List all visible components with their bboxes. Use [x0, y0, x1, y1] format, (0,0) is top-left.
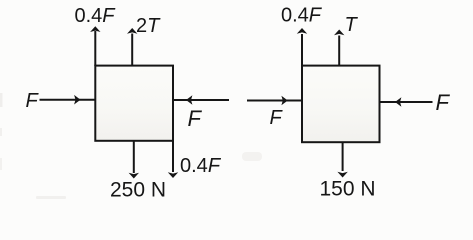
- force arrow 250 N down: [129, 141, 139, 179]
- force arrow F right-side pointing left (right diagram): [380, 97, 433, 107]
- svg-text:F: F: [26, 90, 40, 112]
- svg-text:F: F: [188, 106, 203, 131]
- svg-text:T: T: [345, 14, 359, 36]
- svg-text:F: F: [436, 90, 451, 115]
- force arrow T up: [334, 30, 344, 67]
- svg-text:150 N: 150 N: [320, 178, 376, 201]
- svg-text:0.4F: 0.4F: [74, 5, 116, 27]
- scan smudge mid lower: [242, 152, 262, 161]
- scan smudge bottom left: [36, 196, 66, 199]
- svg-text:F: F: [270, 107, 284, 129]
- scan smudge left lower: [0, 128, 2, 136]
- block B (right box): [302, 66, 380, 143]
- svg-text:0.4F: 0.4F: [281, 5, 323, 27]
- scan smudge left mid-low: [0, 158, 2, 170]
- force arrow F left-side (right diagram): [247, 96, 302, 106]
- scan smudge left edge: [0, 93, 3, 107]
- svg-text:2T: 2T: [136, 15, 161, 37]
- force arrow F right-side pointing left (left diagram): [174, 95, 230, 105]
- force arrow 2T up: [127, 28, 137, 66]
- svg-text:250 N: 250 N: [110, 179, 166, 202]
- force arrow F left-side (left diagram): [40, 95, 96, 105]
- block A (left box): [95, 66, 173, 141]
- force arrow 0.4F down (right edge extension): [168, 141, 178, 178]
- force arrow 0.4F up (right diagram): [297, 28, 307, 66]
- force arrow 0.4F up (left diagram): [90, 26, 100, 66]
- svg-text:0.4F: 0.4F: [180, 155, 222, 177]
- force arrow 150 N down: [337, 142, 347, 177]
